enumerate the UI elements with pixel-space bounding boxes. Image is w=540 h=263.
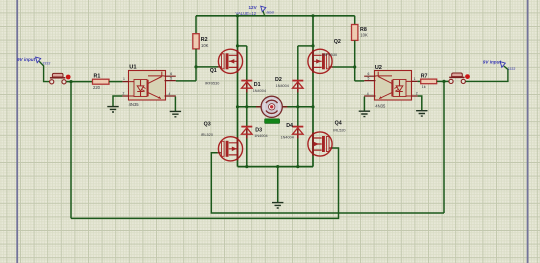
U1 pin number 1 — [123, 77, 125, 81]
node LEFT_IN label "9V input" — [17, 57, 36, 62]
wire gate node to Q1 gate — [196, 66, 218, 68]
U2 pin number 6 — [368, 72, 370, 76]
svg-text:label: label — [267, 10, 275, 14]
svg-text:Q3: Q3 — [204, 122, 211, 128]
svg-text:6: 6 — [368, 72, 370, 76]
sheet border right — [527, 0, 529, 263]
svg-text:D1: D1 — [254, 82, 261, 88]
resistor R7 — [421, 73, 437, 89]
U2 pin number 2 — [416, 92, 418, 96]
svg-text:R1: R1 — [94, 74, 101, 80]
wire generator to switch SW1 — [39, 61, 49, 81]
wire rail to R8 — [354, 16, 356, 25]
wire R2 to gate node — [195, 49, 197, 81]
svg-text:6: 6 — [170, 72, 172, 76]
node RIGHT_IN label "9V input" — [483, 60, 502, 65]
switch SW1 (pushbutton) — [50, 73, 71, 84]
svg-text:IRL520: IRL520 — [333, 128, 345, 132]
junction motor row Q2 — [311, 105, 314, 108]
wire inner bottom rail to Q3 gate — [211, 153, 444, 213]
wire SW2 to right generator — [466, 66, 508, 81]
switch SW2 (pushbutton) — [449, 73, 470, 84]
wire D2/D4 column — [297, 46, 299, 167]
svg-text:9V input: 9V input — [17, 57, 36, 62]
svg-text:4N35: 4N35 — [375, 103, 386, 108]
junction node left input — [69, 80, 72, 83]
generator V_left symbol — [36, 57, 51, 66]
wire jog to D2 column — [298, 45, 313, 47]
svg-text:4N35: 4N35 — [129, 102, 140, 107]
junction node right input — [442, 80, 445, 83]
svg-text:Q4: Q4 — [335, 120, 342, 126]
wire motor row — [238, 106, 314, 108]
svg-text:2: 2 — [123, 92, 125, 96]
wire right input down to inner bottom rail — [443, 81, 445, 213]
svg-text:D2: D2 — [275, 77, 282, 83]
wire U2 pin2 to ground — [418, 96, 422, 111]
svg-text:10K: 10K — [201, 43, 209, 48]
U2 pin number 1 — [414, 77, 416, 81]
U2 pin number 4 — [367, 92, 369, 96]
wire U2 pin4 to ground — [363, 97, 365, 111]
diode D1 1N4004 — [241, 81, 266, 93]
ground U2 pin2 — [416, 111, 427, 116]
svg-text:4: 4 — [367, 92, 369, 96]
junction motor row D2 — [296, 105, 299, 108]
diode D2 1N4004 — [275, 77, 303, 92]
svg-text:1N4004: 1N4004 — [281, 136, 294, 140]
wire outer bottom rail to Q4 gate — [71, 148, 339, 218]
svg-text:D4: D4 — [286, 123, 293, 129]
transistor Q4 IRL520 (mirrored) — [308, 132, 333, 156]
wire U2 pin5 to gate node — [355, 80, 365, 82]
U1 pin number 5 — [170, 77, 172, 81]
svg-text:5: 5 — [170, 77, 172, 81]
U1 pin number 6 — [170, 72, 172, 76]
svg-text:IRF9530: IRF9530 — [323, 53, 338, 57]
svg-text:U1: U1 — [129, 64, 136, 70]
svg-text:R7: R7 — [421, 73, 428, 79]
ground U2 pin4 — [359, 111, 370, 116]
ground bridge — [272, 203, 283, 208]
junction motor row Q1 — [236, 105, 239, 108]
svg-text:Q1: Q1 — [210, 68, 217, 74]
wire ground tap — [277, 167, 279, 203]
wire gate node to Q2 gate — [332, 66, 355, 68]
wire bridge bottom rail — [238, 166, 314, 168]
wire U1 pin5 to gate node — [176, 80, 196, 82]
transistor Q3 IRL520 — [201, 122, 243, 161]
svg-text:1N4004: 1N4004 — [254, 134, 267, 138]
wire left bridge leg (Q1 drain / Q3 drain) — [237, 16, 239, 167]
resistor R1 — [93, 74, 110, 91]
sheet border left — [16, 0, 18, 263]
U1 pin number 2 — [123, 92, 125, 96]
svg-text:9V input: 9V input — [483, 60, 502, 65]
transistor Q1 IRF9530 — [205, 49, 243, 85]
svg-text:Q2: Q2 — [334, 39, 341, 45]
svg-text:220: 220 — [93, 85, 101, 90]
wire U1 pin2 to ground — [113, 96, 122, 106]
wire R7 to switch SW2 — [437, 80, 449, 82]
junction bottom ground tap — [276, 165, 279, 168]
resistor R8 — [352, 25, 368, 41]
svg-text:1: 1 — [414, 77, 416, 81]
U1 reference label — [129, 64, 136, 70]
wire jog to D1 column — [238, 45, 247, 47]
junction bottom D3 — [245, 165, 248, 168]
diode D4 1N4004 — [281, 123, 304, 140]
U1 pin number 4 — [169, 92, 171, 96]
power terminal 12V — [236, 5, 275, 16]
svg-text:10K: 10K — [360, 33, 368, 38]
svg-text:U2: U2 — [375, 65, 382, 71]
ground U1 pin2 — [107, 107, 118, 112]
svg-text:IRF9530: IRF9530 — [205, 81, 220, 85]
svg-text:1: 1 — [123, 77, 125, 81]
svg-text:2: 2 — [416, 92, 418, 96]
op-amp U1 4N35 optocoupler body — [122, 71, 175, 101]
svg-text:D3: D3 — [255, 128, 262, 134]
svg-text:12V: 12V — [249, 5, 258, 10]
diode D3 1N4004 — [241, 127, 267, 139]
junction rail left leg — [236, 14, 239, 17]
junction at jog D1 — [236, 44, 239, 47]
wire SW1 to R1 — [66, 81, 92, 83]
svg-text:4: 4 — [169, 92, 171, 96]
wire right bridge leg (Q2 drain / Q4 drain) — [312, 16, 314, 167]
U2 value label 4N35 — [375, 103, 386, 108]
svg-text:3333: 3333 — [507, 67, 515, 71]
transistor Q2 IRF9530 (mirrored) — [308, 49, 333, 73]
junction gate node Q2 — [353, 65, 356, 68]
wire R8 to gate node Q2 — [354, 40, 356, 81]
wire U1 pin4 to ground — [174, 97, 176, 112]
generator V_right symbol — [500, 62, 515, 71]
junction at jog D2 — [311, 44, 314, 47]
U2 pin number 5 — [368, 77, 370, 81]
ground U1 pin4 — [170, 111, 181, 116]
svg-text:1N4004: 1N4004 — [253, 89, 266, 93]
resistor R2 — [193, 34, 209, 49]
wire left input down to outer bottom rail — [70, 82, 72, 219]
wire rail to R2 — [195, 16, 197, 34]
junction bottom D4 — [296, 165, 299, 168]
junction motor row D1 — [245, 105, 248, 108]
svg-text:5: 5 — [368, 77, 370, 81]
op-amp U2 4N35 optocoupler body (mirrored) — [364, 71, 417, 101]
wire U2 pin1 to R7 — [418, 80, 421, 82]
motor M1 — [256, 96, 287, 117]
wire D1/D3 column — [246, 46, 248, 167]
wire +12V top rail — [196, 15, 355, 17]
junction rail right leg — [311, 14, 314, 17]
wire R1 to U1 pin1 — [109, 81, 122, 83]
svg-text:1N4004: 1N4004 — [276, 84, 289, 88]
svg-text:1k: 1k — [422, 85, 426, 89]
svg-text:IRL520: IRL520 — [201, 133, 213, 137]
U2 reference label — [375, 65, 382, 71]
U1 value label 4N35 — [129, 102, 140, 107]
motor label (green tag) — [265, 119, 280, 124]
junction gate node Q1 — [194, 65, 197, 68]
